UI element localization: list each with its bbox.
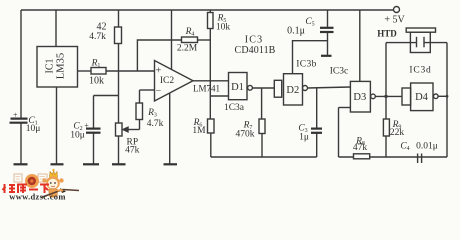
svg-text:D4: D4 xyxy=(415,92,429,103)
svg-text:10k: 10k xyxy=(216,23,231,33)
svg-text:HTD: HTD xyxy=(377,29,397,39)
svg-text:10k: 10k xyxy=(89,76,104,87)
svg-text:IC2: IC2 xyxy=(160,76,175,86)
svg-text:+: + xyxy=(156,66,162,77)
svg-text:1M: 1M xyxy=(192,126,206,136)
svg-text:1C3a: 1C3a xyxy=(224,103,245,113)
svg-text:470k: 470k xyxy=(236,130,255,140)
svg-text:47k: 47k xyxy=(125,146,140,156)
svg-text:IC3: IC3 xyxy=(245,35,264,46)
svg-text:IC1: IC1 xyxy=(45,59,56,74)
svg-text:0.1μ: 0.1μ xyxy=(287,26,305,37)
svg-text:0.01μ: 0.01μ xyxy=(416,142,438,152)
svg-text:LM741: LM741 xyxy=(193,84,220,94)
svg-text:10μ: 10μ xyxy=(70,131,85,141)
svg-text:IC3d: IC3d xyxy=(409,66,431,76)
svg-text:LM35: LM35 xyxy=(56,53,67,79)
svg-text:IC3c: IC3c xyxy=(330,67,348,77)
svg-text:42: 42 xyxy=(97,22,107,33)
svg-text:D2: D2 xyxy=(286,85,299,96)
svg-text:+: + xyxy=(84,121,89,130)
svg-text:10μ: 10μ xyxy=(26,124,41,134)
svg-text:D3: D3 xyxy=(353,92,366,103)
svg-text:www.dzsc.com: www.dzsc.com xyxy=(9,192,65,201)
svg-text:CD4011B: CD4011B xyxy=(235,45,276,56)
svg-text:+: + xyxy=(13,111,18,120)
svg-text:+ 5V: + 5V xyxy=(384,15,405,26)
svg-text:1μ: 1μ xyxy=(299,133,309,143)
svg-text:4.7k: 4.7k xyxy=(89,32,106,42)
svg-text:4.7k: 4.7k xyxy=(147,119,164,129)
svg-text:IC3b: IC3b xyxy=(296,60,317,70)
svg-text:2.2M: 2.2M xyxy=(177,44,198,54)
svg-text:D1: D1 xyxy=(231,82,244,93)
svg-text:22k: 22k xyxy=(390,128,405,138)
svg-text:−: − xyxy=(156,86,162,97)
svg-text:47k: 47k xyxy=(353,143,368,153)
